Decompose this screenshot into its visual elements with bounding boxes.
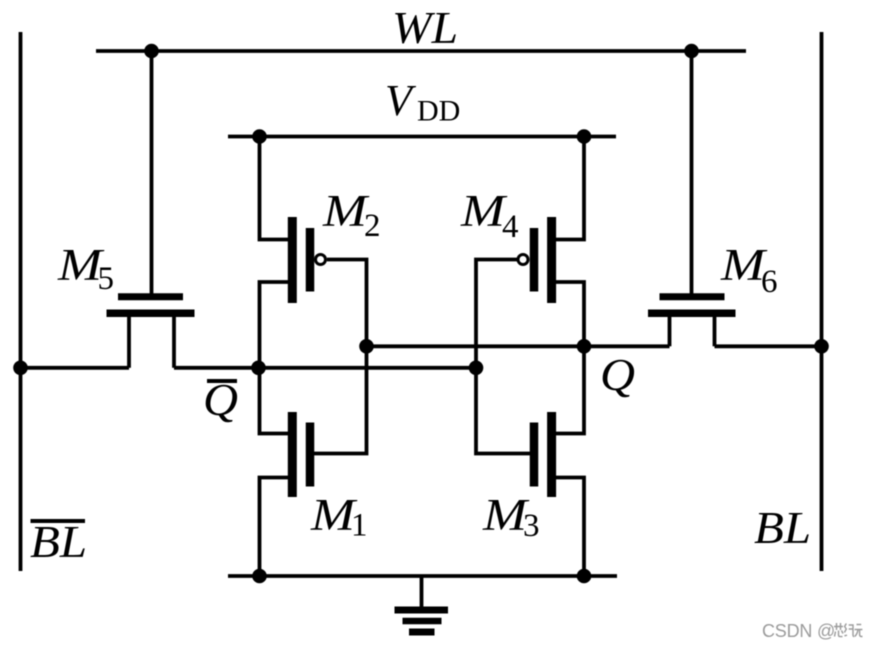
svg-text:CSDN @: CSDN @ <box>762 621 835 641</box>
svg-text:BL: BL <box>754 503 811 553</box>
svg-text:1: 1 <box>351 508 368 544</box>
svg-text:4: 4 <box>502 209 519 245</box>
svg-text:2: 2 <box>364 208 381 244</box>
svg-text:DD: DD <box>417 95 460 128</box>
svg-text:5: 5 <box>98 261 115 297</box>
svg-text:WL: WL <box>392 3 458 53</box>
svg-text:Q: Q <box>600 350 635 400</box>
svg-text:6: 6 <box>761 264 778 300</box>
svg-text:M: M <box>460 186 508 236</box>
svg-text:M: M <box>322 186 370 236</box>
svg-text:BL: BL <box>30 517 87 567</box>
svg-text:3: 3 <box>523 508 540 544</box>
